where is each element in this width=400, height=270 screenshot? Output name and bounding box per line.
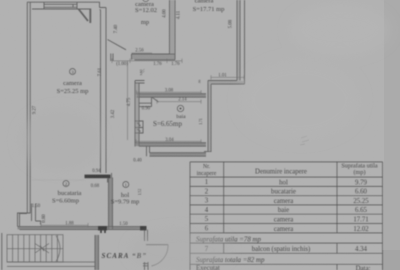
room5 east wall (outer) xyxy=(237,0,245,84)
kitchen shaft xyxy=(32,204,41,225)
room6 west wall step top xyxy=(100,8,107,10)
room6 bottom wall xyxy=(132,54,176,60)
dim line 3.04 xyxy=(136,139,201,143)
staircase xyxy=(7,235,96,267)
poche bathroom west wall xyxy=(135,83,138,146)
room6 door jamb ticks xyxy=(111,54,113,62)
dim line 2.14 xyxy=(157,100,201,104)
dimension texts xyxy=(32,9,234,227)
stair winder arc xyxy=(56,236,60,262)
window W1 in north wall xyxy=(44,2,77,9)
bathroom south wall xyxy=(135,120,206,146)
poche hol top wall xyxy=(150,153,207,156)
hol east wall cap xyxy=(204,151,212,153)
outer wall step below room5 xyxy=(208,81,245,85)
entry door bottom stub xyxy=(143,262,149,270)
room6/room5 dividing wall xyxy=(170,0,176,60)
table outer border xyxy=(190,162,383,270)
west wall step at kitchen xyxy=(18,213,31,227)
bathroom duct 0.90 xyxy=(139,97,152,106)
room 6 circled number (cut) xyxy=(143,0,149,2)
poche hol east wall xyxy=(208,84,211,152)
poche room6 bottom wall xyxy=(132,54,176,59)
poche room6/5 divider xyxy=(170,0,175,54)
entry wall bar xyxy=(145,227,148,241)
dim line 1.88 xyxy=(41,223,88,227)
table col separator 2 xyxy=(336,162,338,270)
faint pencil marks xyxy=(300,136,309,145)
west wall double line xyxy=(27,3,30,214)
stair outline xyxy=(7,235,63,262)
stair direction cross xyxy=(35,244,49,254)
break mark xyxy=(140,69,145,75)
room3/room6 dividing wall (east wall of camera 3) xyxy=(101,8,107,174)
hol east wall xyxy=(208,81,211,152)
bathroom door swing xyxy=(152,97,159,102)
entry door leaf xyxy=(146,244,168,246)
thick segments south wall xyxy=(98,226,107,230)
south wall of hol and bucataria xyxy=(18,227,147,230)
dim line 2.56 xyxy=(132,52,153,54)
image left edge line xyxy=(1,233,3,270)
duct boxes left of bathroom xyxy=(135,121,144,133)
room 3 circled number xyxy=(70,69,76,75)
poche step wall xyxy=(208,81,245,84)
dimension lines xyxy=(41,53,244,227)
poche bathroom top wall xyxy=(137,94,207,97)
bathroom west wall upper stub xyxy=(135,81,145,84)
table grid xyxy=(190,162,383,270)
north wall inner line room 3 xyxy=(32,8,91,10)
poche room5 east wall xyxy=(237,0,240,81)
dim line 1.00 / 1.76 xyxy=(112,59,182,64)
poche scara east wall xyxy=(95,235,98,270)
wall poche fills xyxy=(18,54,207,270)
dim line 3.08 xyxy=(137,90,202,94)
room 2 circled number xyxy=(63,181,69,187)
table row lines xyxy=(190,177,383,264)
stair treads xyxy=(13,235,58,262)
bathroom north wall xyxy=(137,94,207,98)
poche hol/bucataria divider xyxy=(109,178,112,230)
poche bathroom bottom wall xyxy=(135,143,206,146)
hol/bucataria dividing wall xyxy=(109,178,113,230)
table col separator 1 xyxy=(223,162,225,253)
bucataria door bar connector xyxy=(108,173,112,183)
bathroom west wall xyxy=(135,81,139,147)
entry door arc xyxy=(152,245,169,266)
scara junction poche xyxy=(101,227,105,233)
north wall outer line room 3 xyxy=(27,2,100,7)
dim line 1.01 xyxy=(211,75,244,79)
stair mid landing line xyxy=(7,248,63,250)
room3/bucataria faint divider xyxy=(31,179,85,181)
scara east wall xyxy=(95,235,99,270)
vertical dim line 4.75 xyxy=(127,61,129,140)
thick door poche bucataria xyxy=(85,175,111,179)
hol north wall xyxy=(147,147,207,157)
poche hol bottom wall xyxy=(18,227,146,230)
table texts xyxy=(196,162,378,270)
room labels xyxy=(52,0,224,205)
room6 door swing xyxy=(108,40,127,50)
room 1 circled number xyxy=(123,182,129,188)
stair bottom double line xyxy=(7,262,96,266)
room 4 circled number xyxy=(177,105,183,111)
door D1 north (balcony door swing) xyxy=(79,9,91,24)
